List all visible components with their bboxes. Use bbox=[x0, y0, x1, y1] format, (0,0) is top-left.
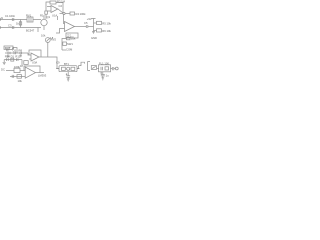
svg-text:LM393: LM393 bbox=[38, 74, 47, 78]
pulse icon bbox=[77, 62, 84, 68]
wire bbox=[29, 58, 31, 60]
ground bbox=[3, 60, 6, 65]
wire bbox=[43, 15, 45, 19]
wire feedback bbox=[29, 50, 41, 57]
connector box RV1 bbox=[27, 17, 33, 22]
svg-text:R8: R8 bbox=[19, 48, 23, 52]
capacitor C11 polarity bbox=[100, 72, 102, 74]
wire bbox=[111, 68, 113, 70]
resistor R8 bbox=[20, 52, 22, 55]
wire bbox=[57, 16, 59, 20]
wire bbox=[45, 14, 47, 19]
wire bbox=[60, 13, 63, 15]
capacitor C11 bbox=[101, 75, 105, 76]
wire bbox=[64, 15, 65, 24]
switch SW1 bbox=[62, 37, 70, 50]
svg-text:C5: C5 bbox=[84, 21, 88, 25]
svg-text:RV2: RV2 bbox=[51, 37, 57, 41]
connector J2 bbox=[88, 62, 97, 71]
resistor R7 bbox=[8, 52, 10, 55]
wire bbox=[56, 29, 65, 34]
ground bbox=[102, 78, 105, 80]
diode D1 bbox=[11, 58, 14, 61]
resistor R1 bbox=[45, 11, 48, 14]
ground bbox=[20, 54, 22, 57]
capacitor C12 bbox=[112, 67, 114, 70]
resistor R5 bbox=[97, 21, 102, 24]
svg-text:C9: C9 bbox=[56, 60, 60, 64]
wire bbox=[6, 70, 14, 72]
wire bbox=[56, 3, 63, 14]
wire bbox=[36, 72, 45, 74]
net label AUDIO bbox=[4, 46, 13, 49]
terminal J1-1 bbox=[0, 18, 2, 21]
filter block FL1 bbox=[99, 65, 111, 72]
svg-text:C3: C3 bbox=[8, 23, 12, 27]
svg-text:J1: J1 bbox=[0, 16, 3, 20]
wire bbox=[47, 6, 51, 8]
svg-text:U3A: U3A bbox=[32, 60, 37, 64]
wire bbox=[10, 75, 25, 77]
capacitor C10 polarity bbox=[66, 73, 68, 75]
svg-text:10k: 10k bbox=[18, 79, 23, 83]
resistor R3 bbox=[50, 1, 56, 4]
svg-text:R1: R1 bbox=[40, 14, 44, 18]
wire bbox=[102, 72, 104, 75]
svg-text:10k: 10k bbox=[71, 36, 76, 40]
power +9V bbox=[92, 19, 96, 21]
wire bbox=[46, 2, 50, 10]
capacitor C7 bbox=[24, 61, 28, 65]
capacitor C10 bbox=[66, 76, 70, 77]
svg-text:GND: GND bbox=[91, 36, 97, 40]
resistor R6 bbox=[97, 29, 102, 32]
resistor R4 bbox=[70, 12, 75, 15]
wire bbox=[97, 68, 99, 70]
capacitor C6 bbox=[14, 52, 16, 55]
ground bbox=[7, 54, 10, 57]
svg-text:U1A: U1A bbox=[52, 14, 57, 18]
svg-text:SW1: SW1 bbox=[67, 42, 73, 46]
svg-text:Q1: Q1 bbox=[47, 15, 51, 19]
capacitor C5 bbox=[86, 25, 88, 28]
wire bbox=[94, 22, 97, 24]
op-amp U3A bbox=[31, 53, 39, 61]
svg-text:D1: D1 bbox=[11, 55, 15, 59]
resistor R14 bbox=[7, 58, 9, 61]
svg-text:10k: 10k bbox=[41, 34, 46, 38]
svg-text:C1 100n: C1 100n bbox=[5, 14, 16, 18]
wire bbox=[21, 60, 23, 66]
wire bbox=[5, 52, 28, 54]
svg-text:FL1 100: FL1 100 bbox=[99, 61, 109, 65]
resistor R17 bbox=[17, 75, 21, 79]
wire bbox=[65, 13, 70, 15]
wire bbox=[88, 26, 94, 28]
capacitor C8 bbox=[12, 75, 14, 78]
svg-text:COM: COM bbox=[66, 48, 73, 52]
wire bbox=[75, 26, 87, 28]
wire bbox=[4, 59, 22, 61]
svg-text:R14: R14 bbox=[5, 55, 10, 59]
wire bbox=[39, 56, 48, 58]
svg-text:1n: 1n bbox=[20, 64, 23, 68]
wire bbox=[47, 10, 51, 12]
module BT1 bbox=[59, 66, 77, 72]
op-amp U2A bbox=[65, 22, 75, 32]
svg-text:BC547: BC547 bbox=[26, 29, 35, 33]
resistor R16 bbox=[14, 68, 20, 72]
capacitor C1 bbox=[12, 18, 14, 21]
wire bbox=[67, 72, 69, 76]
node OUT1 bbox=[63, 12, 65, 14]
wire bbox=[45, 10, 47, 11]
terminal OUT bbox=[114, 67, 118, 70]
resistor R15 bbox=[16, 58, 18, 61]
wire bbox=[33, 19, 41, 21]
wire bbox=[67, 77, 69, 79]
svg-text:BT1: BT1 bbox=[64, 62, 69, 66]
resistor R2 bbox=[19, 20, 21, 28]
op-amp U1A bbox=[51, 6, 58, 13]
svg-text:+9V: +9V bbox=[87, 17, 92, 21]
svg-text:R4 100k: R4 100k bbox=[76, 12, 87, 16]
svg-text:R6 10k: R6 10k bbox=[102, 29, 111, 33]
wire bbox=[94, 30, 97, 32]
svg-text:DC: DC bbox=[1, 68, 5, 72]
wire bbox=[20, 70, 25, 72]
trimpot RV2 bbox=[45, 38, 50, 43]
wire bbox=[28, 53, 31, 55]
wire bbox=[77, 68, 80, 70]
wire bbox=[56, 68, 59, 70]
svg-text:100k: 100k bbox=[14, 65, 20, 69]
op-amp U4A bbox=[25, 67, 35, 78]
svg-text:R7: R7 bbox=[6, 48, 10, 52]
wire bbox=[58, 9, 63, 13]
wire bbox=[43, 26, 45, 30]
wire bbox=[48, 57, 59, 69]
svg-text:1u: 1u bbox=[106, 73, 109, 77]
wire feedback bbox=[24, 66, 40, 73]
label U2 bbox=[67, 35, 74, 39]
svg-text:RV1: RV1 bbox=[26, 13, 32, 17]
ground bbox=[67, 79, 70, 81]
svg-text:C6: C6 bbox=[13, 48, 17, 52]
capacitor C3 bbox=[12, 26, 14, 29]
svg-text:R5 10k: R5 10k bbox=[102, 22, 111, 26]
wire bbox=[13, 48, 17, 53]
wire bbox=[0, 19, 27, 21]
terminal J1-2 bbox=[0, 26, 2, 29]
svg-text:R3 1M: R3 1M bbox=[57, 0, 66, 4]
wire bbox=[0, 27, 41, 29]
wire bbox=[93, 20, 95, 32]
transistor Q1 bbox=[41, 19, 47, 25]
ground bbox=[92, 32, 95, 34]
IC box U2 bbox=[66, 33, 78, 38]
svg-text:R15: R15 bbox=[15, 55, 20, 59]
wire bbox=[47, 42, 49, 57]
wire bbox=[102, 76, 104, 78]
wire bbox=[37, 28, 39, 33]
svg-text:C2: C2 bbox=[59, 4, 63, 8]
